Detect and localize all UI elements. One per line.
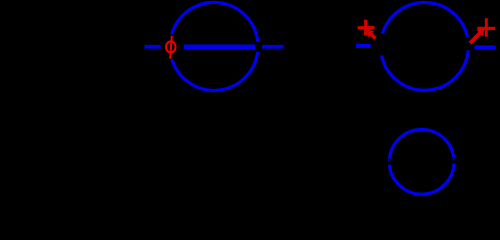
right counterterm plus sign: vertical bar [485,18,488,37]
right diagram: left external leg dash [356,44,371,48]
right diagram: right external leg dash [474,45,495,49]
small tadpole circle: lower visible arc [389,163,454,194]
small circle right vertex tick (dark blue remnant) [453,158,455,161]
left diagram: left external leg dash [145,45,161,49]
left diagram: right external leg dash [262,45,284,49]
left counterterm plus sign: horizontal bar [358,26,375,29]
small tadpole circle: upper visible arc [389,129,453,158]
vertex label phi (red) : stem [170,36,172,59]
left annotation arrow (points up-left to plus) [371,34,376,39]
left sunset diagram: loop circle (upper visible arc) [172,2,258,41]
right bubble diagram: loop circle (lower visible arc) [382,50,469,90]
right counterterm plus sign: horizontal bar [477,27,495,30]
vertex label phi (red) : ring [166,41,176,52]
left sunset diagram: loop circle (lower visible arc) [172,52,258,91]
right bubble diagram: loop circle (upper visible arc) [382,2,467,36]
left counterterm plus sign: vertical bar [364,20,367,36]
small circle left vertex tick (dark blue remnant) [388,159,390,162]
right annotation arrow (points up-right to plus) [470,33,480,44]
left diagram: internal propagator line [184,45,255,50]
